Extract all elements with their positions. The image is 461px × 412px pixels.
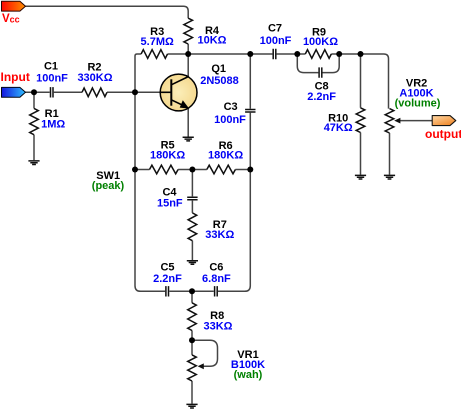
svg-text:C3: C3 (224, 101, 238, 113)
wire VR2 bottom to ground (389, 133, 391, 175)
wire Q1 emitter to ground (187, 108, 189, 136)
wire C3 rail: node down through C3 to R6 node (249, 54, 251, 170)
node VR1 wiper node (189, 337, 195, 343)
ground under R10 (355, 175, 366, 179)
svg-text:2N5088: 2N5088 (200, 75, 239, 87)
svg-text:(wah): (wah) (234, 369, 263, 381)
capacitor C1 100nF (51, 87, 54, 97)
resistor R6 180K (207, 165, 236, 174)
resistor R5 180K (150, 165, 179, 174)
svg-text:C1: C1 (44, 61, 58, 73)
node R6 right node (247, 167, 253, 173)
wire R1 bottom to ground (33, 135, 35, 161)
resistor R10 47K (356, 108, 365, 133)
potentiometer VR1 B100K (188, 355, 197, 381)
svg-text:5.7MΩ: 5.7MΩ (141, 36, 174, 48)
potentiometer VR2 A100K (385, 109, 394, 133)
node C5-C6 node (189, 288, 195, 294)
node C8 left node (294, 51, 300, 57)
wire R8 to VR1 node (191, 331, 193, 355)
resistor R7 33K (188, 213, 197, 241)
wire R10 rail (360, 54, 362, 175)
wire R3 right to collector node (168, 53, 189, 55)
wire R7 bottom to ground (191, 241, 193, 260)
wire C4 leads (191, 170, 193, 213)
svg-text:330KΩ: 330KΩ (77, 72, 112, 84)
wire collector node to C3/C7 node (188, 53, 250, 55)
wire C7 to R9 node (277, 53, 298, 55)
wire box right edge (218, 170, 250, 292)
capacitor C8 2.2nF (319, 67, 322, 77)
node C3 top node (247, 51, 253, 57)
resistor R8 33K (188, 303, 197, 331)
wire C8 branch left (297, 54, 318, 73)
transistor Q1 2N5088 (160, 74, 197, 111)
wire C8 branch right (323, 54, 340, 73)
wire Vcc rail top (25, 6, 189, 18)
capacitor C6 6.8nF (215, 286, 218, 296)
node R5 left node (132, 167, 138, 173)
svg-text:100nF: 100nF (214, 114, 246, 126)
wire R9 leads (297, 53, 339, 55)
capacitor C3 100nF (245, 110, 255, 113)
svg-text:C7: C7 (268, 22, 282, 34)
capacitor C5 2.2nF (166, 286, 169, 296)
wire input flag to C1 (25, 91, 50, 93)
wire bottom line C5 to C6 through node (169, 290, 244, 292)
Input connector flag (2, 87, 26, 97)
svg-text:2.2nF: 2.2nF (153, 273, 182, 285)
wire R9 node to R10 node to VR2 corner (339, 54, 388, 109)
wire VR1 wiper loop (192, 340, 218, 366)
node R5-R6 node (189, 167, 195, 173)
wire R3 left lead to base rail (135, 54, 141, 92)
svg-text:C5: C5 (160, 262, 174, 274)
ground under VR1 (186, 404, 197, 408)
node C8 right node (336, 51, 342, 57)
wire VR1 bottom to ground (191, 381, 193, 404)
resistor R3 5.7M (141, 50, 167, 59)
ground under Q1 emitter (183, 137, 194, 141)
node base node (132, 89, 138, 95)
node collector node (185, 51, 191, 57)
svg-text:Vcc: Vcc (2, 13, 20, 25)
wire base node to Q1 base (135, 91, 171, 93)
ground under R7 (187, 261, 198, 265)
svg-text:100nF: 100nF (36, 72, 68, 84)
svg-text:(volume): (volume) (395, 97, 441, 109)
Vcc connector flag (2, 1, 26, 11)
wire collector node down to Q1 (187, 54, 189, 77)
svg-text:15nF: 15nF (157, 197, 183, 209)
ground under R1 (28, 161, 39, 165)
output connector flag (432, 116, 456, 126)
svg-text:2.2nF: 2.2nF (307, 91, 336, 103)
svg-text:Q1: Q1 (211, 63, 226, 75)
capacitor C4 15nF (187, 197, 197, 200)
resistor R1 1M (30, 108, 39, 134)
node R10 top node (358, 51, 364, 57)
svg-text:6.8nF: 6.8nF (202, 273, 231, 285)
svg-text:10KΩ: 10KΩ (198, 35, 227, 47)
svg-text:180KΩ: 180KΩ (208, 150, 243, 162)
resistor R4 10K (184, 18, 193, 44)
node input node (31, 89, 37, 95)
wire output to VR2 wiper (399, 120, 432, 122)
wire node to C7 (250, 53, 272, 55)
svg-text:100nF: 100nF (260, 35, 292, 47)
wire R5 line segments (135, 169, 250, 171)
capacitor C7 100nF (273, 49, 276, 59)
wire R2 to base node (107, 91, 135, 93)
svg-text:33KΩ: 33KΩ (205, 229, 234, 241)
wire node down to R8 (191, 291, 193, 303)
wire R1 top lead (33, 92, 35, 108)
wire R4 bottom to mid-line node (187, 44, 189, 54)
ground under VR2 (384, 175, 395, 179)
resistor R9 100K (305, 50, 331, 59)
svg-text:C6: C6 (209, 262, 223, 274)
svg-text:180KΩ: 180KΩ (150, 150, 185, 162)
svg-text:1MΩ: 1MΩ (41, 119, 65, 131)
resistor R2 330K (82, 88, 107, 97)
wire left rail: base node down to R5 line and box left edge (135, 92, 165, 291)
svg-text:output: output (425, 127, 461, 141)
svg-text:33KΩ: 33KΩ (204, 321, 233, 333)
svg-text:47KΩ: 47KΩ (324, 122, 353, 134)
svg-text:(peak): (peak) (92, 180, 125, 192)
svg-text:Input: Input (1, 70, 30, 84)
wire C1 to R2 (54, 91, 82, 93)
svg-text:100KΩ: 100KΩ (303, 36, 338, 48)
